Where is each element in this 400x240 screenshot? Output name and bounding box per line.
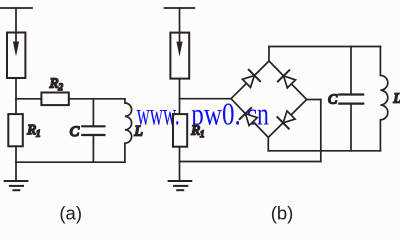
wire b: bottom vertex stub bbox=[267, 137, 269, 150]
capacitor C (a): plates bbox=[82, 126, 104, 135]
wire b: right riser up to right vertex level bbox=[320, 100, 322, 162]
resistor R1 box (a) bbox=[8, 114, 22, 146]
wire a: stem from rail to current source bbox=[15, 8, 17, 33]
wire b: node to bridge left vertex bbox=[180, 98, 232, 100]
svg-text:(a): (a) bbox=[59, 203, 82, 224]
capacitor C (b): bottom lead bbox=[350, 104, 352, 151]
ground (a) bbox=[5, 181, 28, 190]
current source arrow b bbox=[176, 33, 182, 57]
capacitor C (b): plates bbox=[339, 95, 363, 104]
wire b: stem to current source bbox=[179, 8, 181, 33]
diode D3 (bottom-left, pointing to left vertex) bbox=[240, 108, 259, 127]
svg-text:C: C bbox=[328, 93, 338, 108]
wire a: node to R2 bbox=[16, 98, 41, 100]
capacitor C (a): top lead bbox=[92, 99, 94, 127]
wire b: riser to bridge right vertex bbox=[307, 99, 321, 101]
inductor L (b) bbox=[380, 47, 387, 151]
svg-text:L: L bbox=[134, 124, 143, 140]
wire b: R1 bottom to ground bbox=[179, 147, 181, 181]
wire a: R2 to tank top rail bbox=[69, 98, 125, 100]
current source arrow a bbox=[13, 33, 19, 57]
diode D1 (top-left, pointing to top vertex) bbox=[241, 70, 260, 89]
capacitor C (b): top lead bbox=[350, 47, 352, 95]
bridge diamond edges bbox=[231, 61, 307, 137]
wire a: source bottom to node bbox=[15, 78, 17, 114]
current source box Ia bbox=[7, 33, 25, 79]
capacitor C (a): bottom lead bbox=[92, 135, 94, 162]
wire a: bottom rail node to tank bbox=[16, 161, 125, 163]
svg-text:(b): (b) bbox=[271, 203, 294, 224]
wire b: source to R1 bbox=[179, 79, 181, 115]
wire b: top vertex stub bbox=[268, 47, 270, 62]
ground (b) bbox=[169, 181, 192, 190]
wire b: tank bottom rail bbox=[268, 150, 380, 152]
circuit a: top rail bbox=[0, 7, 32, 9]
wire b: bridge top rail to tank bbox=[269, 46, 380, 48]
circuit b: top rail bbox=[164, 7, 194, 9]
inductor L (a) bbox=[125, 99, 132, 162]
current source box Ib bbox=[170, 33, 189, 79]
svg-text:C: C bbox=[70, 124, 80, 140]
resistor R1 box (b) bbox=[173, 114, 187, 147]
wire b: lower rail from node to right riser bbox=[180, 161, 321, 163]
resistor R2 box bbox=[41, 93, 68, 106]
svg-text:L: L bbox=[393, 91, 400, 106]
wire a: R1 bottom to ground bbox=[15, 146, 17, 181]
diode D4 (bottom-right, pointing to bottom vertex) bbox=[277, 109, 296, 128]
diode D2 (top-right, pointing to top vertex) bbox=[278, 70, 297, 89]
